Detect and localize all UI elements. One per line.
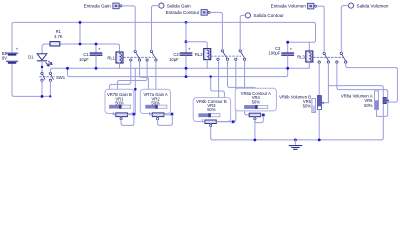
connector Entrada Contour bbox=[166, 10, 211, 16]
wire LED cathode to switch bbox=[41, 61, 43, 72]
connector Salida Contour bbox=[245, 13, 284, 18]
node VR1 top-right pin bbox=[134, 88, 137, 91]
wire relay3 dashed actuator bbox=[313, 56, 343, 58]
relay coil RL1 bbox=[107, 52, 123, 68]
relay3 contacts pole B bbox=[336, 52, 347, 63]
node rail2-branch bbox=[66, 67, 69, 70]
connector Entrada Volumen bbox=[271, 3, 317, 9]
potentiometer widget VR3 bbox=[193, 98, 234, 140]
node bottom rail VR4 bbox=[254, 139, 257, 142]
node rail-branch2 bbox=[185, 21, 188, 24]
capacitor C3 bbox=[268, 42, 293, 68]
relay coil RL3 bbox=[297, 51, 313, 68]
ground symbol bbox=[289, 140, 302, 149]
wire relay1 dashed actuator bbox=[124, 56, 154, 58]
wire rail tap to VR1 terminal bbox=[134, 68, 135, 115]
potentiometer widget VR2 bbox=[140, 89, 173, 125]
potentiometer widget VR4 bbox=[235, 88, 276, 138]
svg-text:RL3: RL3 bbox=[297, 55, 305, 60]
node rail2 tap bbox=[210, 75, 212, 77]
svg-text:RL1: RL1 bbox=[107, 56, 115, 61]
node rail-branch1 bbox=[79, 21, 82, 24]
battery B1 bbox=[2, 24, 19, 94]
node sw-bottom junction bbox=[41, 95, 44, 98]
svg-text:50%: 50% bbox=[207, 107, 216, 112]
node R1-right bbox=[79, 43, 82, 46]
wire relay3 throw A1 to VR5 top bbox=[318, 63, 320, 95]
wire Entrada Volumen to relay3 poleA common bbox=[317, 6, 325, 52]
relay3 contacts pole A bbox=[318, 52, 329, 63]
wire relay1 throw B2 to VR2 bbox=[155, 61, 157, 90]
svg-text:+: + bbox=[16, 47, 19, 52]
svg-text:10µF: 10µF bbox=[79, 57, 89, 62]
svg-text:4.7K: 4.7K bbox=[54, 34, 63, 39]
node LED pin bbox=[41, 66, 43, 68]
svg-text:10µF: 10µF bbox=[169, 57, 179, 62]
svg-text:50%: 50% bbox=[151, 100, 160, 105]
potentiometer widget VR1 bbox=[105, 89, 135, 125]
connector Entrada Gain bbox=[84, 3, 122, 9]
wire feed line section2 bbox=[186, 42, 207, 49]
wire to LED anode bbox=[42, 44, 46, 54]
connector Salida Gain bbox=[159, 3, 191, 8]
svg-text:Entrada Volumen: Entrada Volumen bbox=[271, 4, 307, 9]
svg-text:Salida Volumen: Salida Volumen bbox=[357, 3, 389, 8]
capacitor C2 bbox=[169, 22, 192, 76]
svg-text:50%: 50% bbox=[115, 100, 124, 105]
wire switch pole2 to 0V rail bbox=[50, 68, 52, 72]
wire relay2 dashed actuator bbox=[211, 55, 241, 57]
connector Salida Volumen bbox=[348, 3, 388, 8]
svg-text:RL2: RL2 bbox=[195, 52, 203, 57]
wire relay1 throw A1 to VR1 bbox=[110, 61, 131, 89]
svg-text:SW1: SW1 bbox=[56, 75, 66, 80]
node C2 rail1 bbox=[185, 67, 188, 70]
wire 0V rail1 bbox=[52, 67, 309, 69]
wire branch rail to R1/C1 line bbox=[79, 22, 81, 44]
LED D1 bbox=[28, 54, 52, 66]
potentiometer VR5 bbox=[279, 95, 328, 140]
wire relay3 throw B2 to VR6 top bbox=[346, 63, 398, 102]
node C2 rail2 bbox=[185, 75, 188, 78]
node sw-pole2 bottom pin bbox=[49, 95, 51, 97]
svg-text:Salida Contour: Salida Contour bbox=[253, 13, 284, 18]
node bottom rail ground bbox=[294, 139, 297, 142]
svg-text:+: + bbox=[188, 47, 191, 52]
wire relay3 throw A2 to VR5 wiper bbox=[327, 63, 329, 103]
wire Entrada Contour to relay2 poleA common bbox=[210, 12, 222, 49]
node C1 top bbox=[95, 43, 98, 46]
wire feed stub RL3 bbox=[308, 42, 310, 51]
node C3 bottom bbox=[286, 67, 289, 70]
svg-text:+: + bbox=[98, 47, 101, 52]
svg-text:Entrada Contour: Entrada Contour bbox=[166, 10, 200, 15]
svg-text:Salida Gain: Salida Gain bbox=[167, 3, 191, 8]
relay1 contacts pole A bbox=[130, 50, 141, 61]
svg-text:50%: 50% bbox=[303, 104, 312, 109]
wire Salida Gain to relay1 poleB common bbox=[152, 6, 159, 51]
wire relay2 throw A1 to VR3 bbox=[218, 61, 220, 98]
svg-text:50%: 50% bbox=[252, 99, 261, 104]
switch SW1 bbox=[40, 72, 66, 81]
svg-text:+: + bbox=[290, 47, 293, 52]
node C3 top bbox=[286, 41, 289, 44]
wire relay1 throw B1 to VR1 bbox=[117, 61, 147, 89]
wire Entrada Gain to relay1 poleA common bbox=[122, 6, 135, 50]
relay1 contacts pole B bbox=[146, 50, 157, 61]
wire Salida Volumen to relay3 poleB common bbox=[341, 6, 348, 53]
svg-text:Entrada Gain: Entrada Gain bbox=[84, 3, 112, 8]
wire Salida Contour to relay2 poleB common bbox=[240, 15, 245, 49]
relay2 contacts pole A bbox=[217, 50, 229, 61]
wire switch bottoms to battery minus bbox=[12, 82, 50, 97]
relay coil RL2 bbox=[195, 49, 211, 69]
potentiometer VR6 bbox=[341, 91, 389, 117]
node bottom rail VR5 bbox=[318, 139, 321, 142]
svg-text:100µF: 100µF bbox=[268, 50, 280, 55]
wire feed line section1 bbox=[44, 44, 120, 52]
node C1 bottom bbox=[95, 67, 98, 70]
resistor R1 bbox=[50, 29, 63, 46]
svg-text:9V: 9V bbox=[2, 55, 7, 60]
wire relay2 throw A2 to VR4 bbox=[228, 61, 256, 89]
wire relay2 throw B2 to VR4 terminal bbox=[245, 61, 250, 115]
node C2 feed branch bbox=[185, 40, 188, 43]
wire main +V top rail bbox=[12, 22, 316, 52]
wire relay1 throw A2 to VR2 bbox=[140, 61, 149, 90]
wire rail2 tap to VR3 bbox=[211, 77, 225, 98]
svg-text:50%: 50% bbox=[364, 103, 373, 108]
relay2 contacts pole B bbox=[235, 50, 246, 61]
wire relay2 throw B1 to VR3 terminal bbox=[233, 61, 236, 122]
wire wiper bus to VR6 and ground rail bbox=[213, 86, 384, 140]
wire relay3 throw B1 to VR6 bottom bbox=[337, 63, 388, 116]
svg-text:D1: D1 bbox=[28, 54, 34, 59]
capacitor C1 bbox=[79, 44, 102, 68]
wire 0V rail2 bbox=[68, 68, 288, 76]
